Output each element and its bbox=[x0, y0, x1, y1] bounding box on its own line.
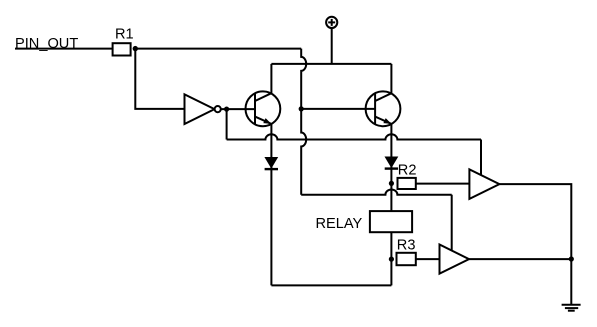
wire Q2 collector up to rail bbox=[390, 64, 392, 93]
svg-text:R1: R1 bbox=[115, 27, 134, 43]
supply rail bbox=[271, 63, 391, 65]
resistor R2 bbox=[398, 178, 416, 189]
wire bottom return bbox=[271, 284, 391, 286]
wire corner down to amp2 top bbox=[451, 195, 453, 251]
op-amp U2 bbox=[469, 169, 499, 199]
svg-text:R2: R2 bbox=[398, 163, 417, 179]
wire Q2 emitter down through D2 to R2 node bbox=[390, 124, 392, 211]
relay K1 bbox=[370, 211, 412, 232]
wire Q1 collector up to rail bbox=[270, 64, 272, 93]
junction dot output node bbox=[569, 256, 574, 261]
resistor R1 bbox=[113, 43, 131, 55]
wire R1 node to top-right corner bbox=[135, 48, 301, 50]
wire vertical x=301 with hop over supply rail bbox=[301, 49, 306, 109]
vcc symbol bbox=[326, 17, 337, 64]
wire R2 to amp1 input bbox=[416, 183, 470, 185]
svg-text:RELAY: RELAY bbox=[316, 216, 363, 232]
wire relay rail y194.7 with hop over x391 bbox=[301, 189, 452, 194]
diode D2 bbox=[385, 157, 399, 169]
transistor Q1 bbox=[246, 91, 281, 126]
wire right rail down to ground bbox=[570, 259, 572, 304]
wire inverter output to Q1 base bbox=[221, 108, 255, 110]
wire R1 node down to inverter input bbox=[135, 49, 184, 109]
junction dot node B bbox=[299, 106, 304, 111]
wire amp2 output to right rail bbox=[469, 258, 571, 260]
diode D1 bbox=[264, 157, 278, 169]
hop of x=301 line over y139 bus bbox=[301, 109, 306, 195]
transistor Q2 bbox=[366, 91, 401, 126]
resistor R3 bbox=[397, 253, 416, 265]
ground bbox=[562, 305, 581, 311]
wire y139 bus with hops over Q1/Q2 emitter lines bbox=[227, 134, 481, 139]
junction dot R3 node bbox=[389, 257, 394, 262]
inverter U1 bbox=[185, 94, 215, 124]
junction dot after R1 bbox=[133, 46, 138, 51]
wire amp1 output to right rail bbox=[499, 184, 571, 259]
wire node B to Q2 base bbox=[301, 108, 375, 110]
op-amp U3 bbox=[440, 245, 470, 274]
wire relay bottom to R3 node and down to bottom wire bbox=[390, 232, 392, 285]
wire inverter-node down to y139 bus bbox=[226, 109, 228, 139]
junction dot inverter output bbox=[224, 107, 229, 112]
wire R3 to amp2 input bbox=[416, 258, 440, 260]
junction dot R2 node bbox=[389, 181, 394, 186]
wire y139 corner down to amp1 top bbox=[480, 140, 482, 176]
svg-text:R3: R3 bbox=[397, 237, 416, 253]
wire PIN_OUT to R1 bbox=[15, 48, 113, 50]
wire Q1 emitter down through D1 to bottom bbox=[270, 124, 272, 286]
